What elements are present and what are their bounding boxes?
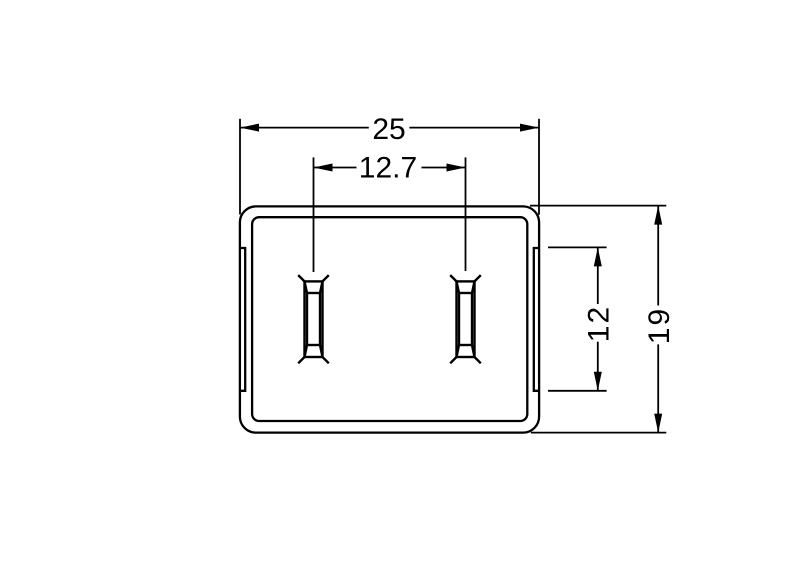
svg-text:12: 12 — [583, 305, 616, 342]
svg-text:12.7: 12.7 — [359, 152, 417, 185]
svg-text:25: 25 — [372, 113, 405, 146]
svg-text:19: 19 — [643, 307, 676, 344]
